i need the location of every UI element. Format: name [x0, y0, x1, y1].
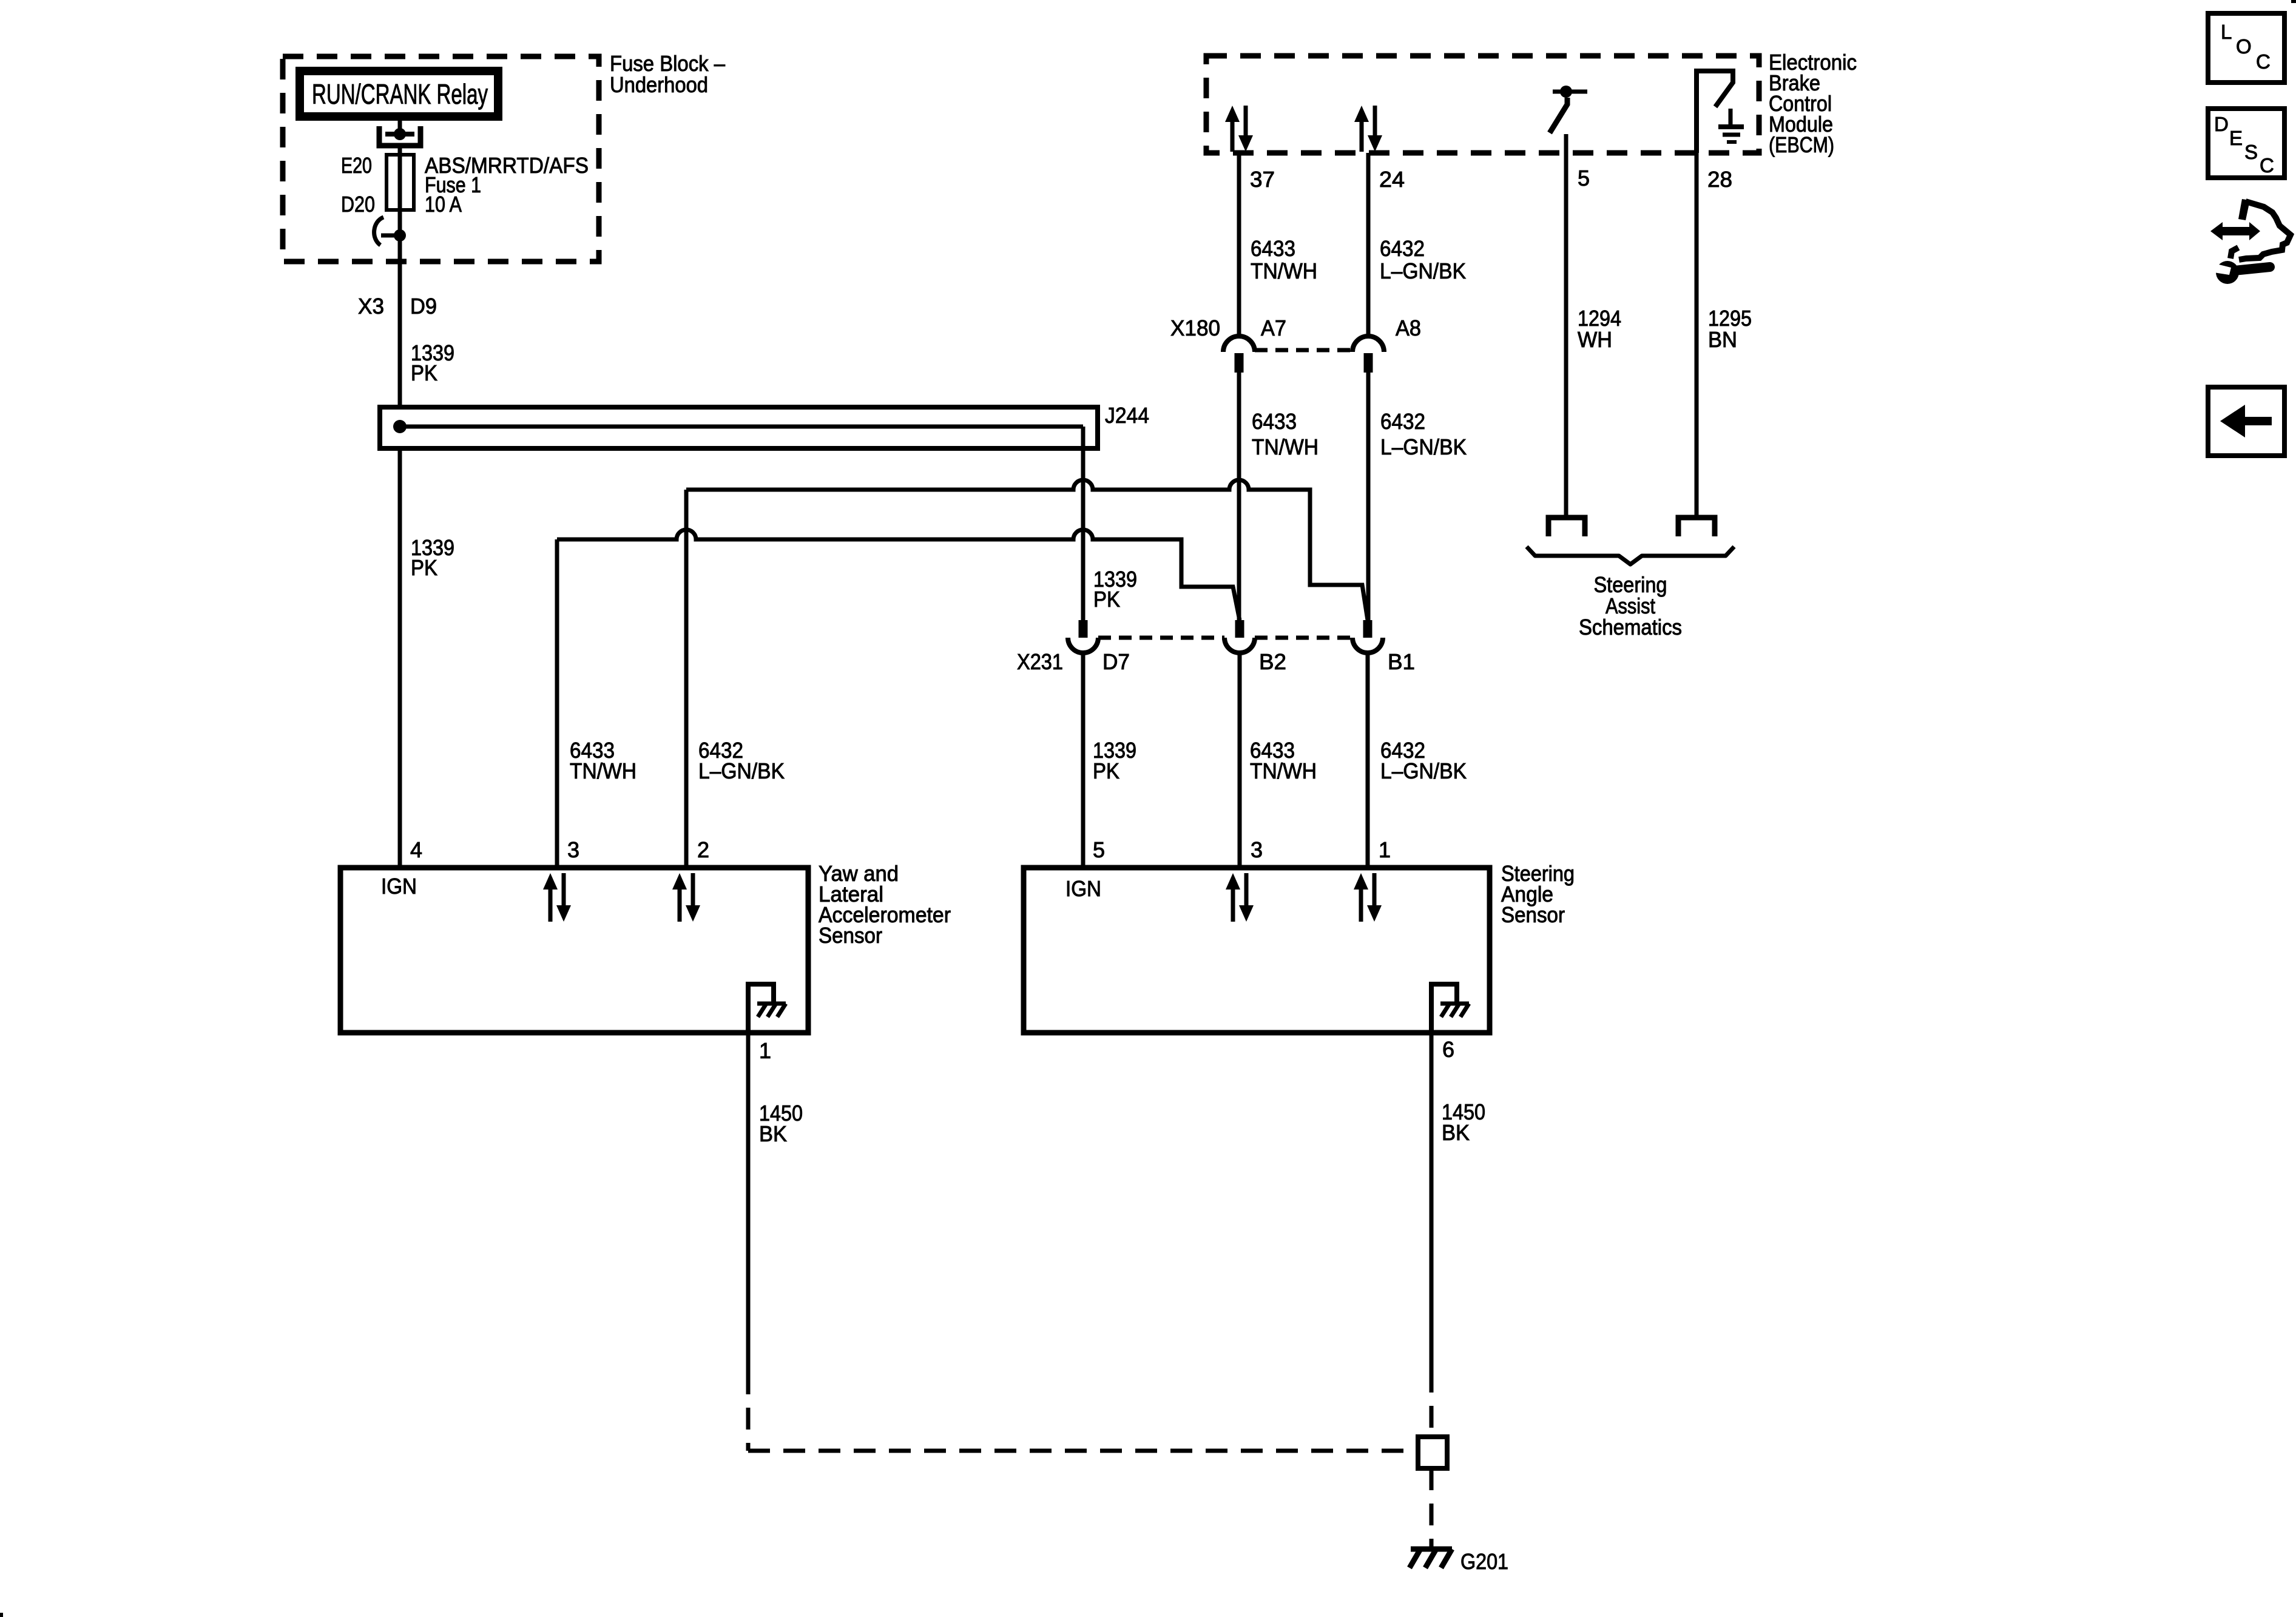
- svg-text:L–GN/BK: L–GN/BK: [698, 758, 785, 783]
- steering pin1 bidirectional arrows: [1354, 873, 1382, 922]
- wire 1339 PK D7 to steering pin 5: [1081, 653, 1086, 868]
- svg-text:PK: PK: [1093, 758, 1119, 783]
- wire EBCM pin37 to X180 A7: [1237, 153, 1241, 334]
- svg-text:1: 1: [759, 1038, 771, 1063]
- connector X231 terminal D7: [1068, 620, 1098, 653]
- dashed wire splice to G201: [1430, 1468, 1434, 1549]
- RUN/CRANK Relay box: [300, 71, 498, 116]
- svg-text:E: E: [2229, 127, 2243, 149]
- svg-text:3: 3: [567, 837, 579, 862]
- svg-text:PK: PK: [1093, 587, 1120, 612]
- corner tick top right: [2291, 0, 2296, 3]
- svg-text:IGN: IGN: [381, 874, 417, 899]
- wire 1294 WH EBCM pin5 to steering assist: [1564, 134, 1568, 515]
- wire relay to fuse clip: [398, 116, 402, 130]
- EBCM pin5 internal switch: [1550, 86, 1587, 133]
- svg-text:BK: BK: [759, 1121, 787, 1146]
- svg-text:(EBCM): (EBCM): [1769, 132, 1834, 157]
- svg-text:E20: E20: [341, 153, 372, 178]
- wire 1450 BK steering pin6 down: [1430, 1033, 1434, 1371]
- svg-text:37: 37: [1250, 167, 1275, 192]
- J244 internal bus wire: [400, 425, 1083, 429]
- fuse top bar: [385, 132, 414, 137]
- svg-text:G201: G201: [1460, 1549, 1508, 1574]
- wire 1295 BN EBCM pin28 to steering assist: [1695, 153, 1699, 515]
- wire from yaw pin2 to X231 B1 with hops: [686, 480, 1368, 620]
- yaw and lateral accelerometer sensor box: [340, 868, 808, 1033]
- steering assist brace: [1527, 547, 1734, 564]
- svg-text:PK: PK: [411, 360, 437, 385]
- wire 6433 TN/WH to yaw pin 3: [555, 539, 559, 868]
- steering sensor internal chassis ground: [1440, 1004, 1469, 1017]
- svg-text:L–GN/BK: L–GN/BK: [1380, 258, 1466, 283]
- connector X231 dashed line 2: [1255, 636, 1352, 640]
- wire 1450 BK yaw pin1 down: [746, 1033, 751, 1372]
- svg-text:6: 6: [1442, 1037, 1454, 1062]
- connector X231 dashed line: [1098, 636, 1224, 640]
- svg-text:S: S: [2244, 141, 2258, 163]
- wire from yaw pin3 to X231 B2 with hops: [557, 530, 1240, 620]
- svg-text:B2: B2: [1259, 649, 1286, 674]
- svg-text:IGN: IGN: [1065, 876, 1101, 901]
- J244 junction dot: [393, 420, 407, 433]
- back arrow icon box: [2208, 387, 2284, 456]
- svg-text:6432: 6432: [1380, 409, 1425, 434]
- diagnostic hand/wrench icon: [2210, 199, 2291, 284]
- steering angle sensor box: [1024, 868, 1490, 1033]
- connector X231 terminal B2: [1224, 620, 1255, 653]
- svg-text:D9: D9: [410, 294, 437, 319]
- yaw sensor internal ground wire: [748, 984, 774, 1033]
- svg-text:C: C: [2256, 50, 2271, 73]
- svg-text:24: 24: [1379, 167, 1405, 192]
- splice pack J244 box: [380, 407, 1098, 448]
- svg-text:TN/WH: TN/WH: [1250, 758, 1317, 783]
- svg-text:Schematics: Schematics: [1579, 615, 1682, 640]
- svg-text:X180: X180: [1170, 316, 1220, 340]
- splice block: [1418, 1437, 1447, 1468]
- ground G201 symbol: [1410, 1549, 1452, 1568]
- off-page bracket wire 1294: [1548, 518, 1585, 536]
- svg-text:Sensor: Sensor: [1501, 902, 1565, 927]
- svg-text:L–GN/BK: L–GN/BK: [1380, 434, 1467, 459]
- svg-text:10 A: 10 A: [425, 192, 462, 217]
- svg-text:5: 5: [1093, 837, 1105, 862]
- svg-text:J244: J244: [1105, 403, 1149, 428]
- svg-text:Underhood: Underhood: [610, 72, 708, 97]
- steering sensor internal ground wire: [1431, 984, 1457, 1033]
- fuse bottom tick: [381, 234, 400, 238]
- yaw sensor internal chassis ground: [757, 1004, 786, 1017]
- EBCM dashed box: [1206, 56, 1759, 153]
- yaw pin2 bidirectional arrows: [672, 873, 700, 922]
- EBCM pin28 internal switch to ground: [1697, 71, 1744, 153]
- connector X180 terminal A8: [1352, 336, 1384, 373]
- svg-text:A8: A8: [1396, 316, 1421, 340]
- svg-text:3: 3: [1251, 837, 1263, 862]
- svg-text:X3: X3: [358, 294, 384, 319]
- dashed wire 1450 BK right vertical: [1430, 1371, 1434, 1437]
- steering pin3 bidirectional arrows: [1226, 873, 1254, 922]
- wire 6432 L-GN/BK A8 to X231 B1: [1366, 373, 1371, 620]
- dashed wire 1450 BK horizontal to splice: [748, 1449, 1420, 1453]
- svg-text:28: 28: [1707, 167, 1732, 192]
- svg-text:C: C: [2260, 154, 2274, 177]
- wire 6433 TN/WH B2 to steering pin 3: [1238, 653, 1242, 868]
- wire 1339 PK J244 exit down to X231 D7: [1081, 427, 1086, 620]
- fuse clip hook: [374, 217, 383, 245]
- svg-text:X231: X231: [1017, 649, 1063, 674]
- yaw pin3 bidirectional arrows: [543, 873, 571, 922]
- EBCM pin24 bidirectional arrows: [1354, 106, 1382, 152]
- svg-text:6432: 6432: [1380, 236, 1425, 261]
- fuse holder top bracket: [379, 126, 420, 146]
- wire 6432 L-GN/BK B1 to steering pin 1: [1366, 653, 1370, 868]
- connector X231 terminal B1: [1352, 620, 1383, 653]
- fuse block - underhood dashed box: [283, 56, 599, 262]
- wire EBCM pin24 to X180 A8: [1366, 153, 1371, 334]
- wire 6432 L-GN/BK to yaw pin 2: [684, 490, 689, 868]
- svg-text:Sensor: Sensor: [819, 923, 882, 948]
- svg-text:4: 4: [410, 837, 422, 862]
- svg-text:6433: 6433: [1252, 409, 1297, 434]
- connector X180 terminal A7: [1223, 336, 1255, 373]
- wire 6433 TN/WH A7 to X231 B2: [1237, 373, 1241, 620]
- dashed wire 1450 BK left vertical: [746, 1372, 751, 1451]
- off-page bracket wire 1295: [1678, 518, 1715, 536]
- svg-text:6433: 6433: [1251, 236, 1295, 261]
- svg-text:L: L: [2221, 21, 2232, 43]
- svg-text:O: O: [2236, 35, 2252, 58]
- svg-text:BK: BK: [1442, 1120, 1470, 1145]
- fuse ABS/MRRTD/AFS Fuse 1 10A: [387, 155, 414, 210]
- svg-text:A7: A7: [1261, 316, 1286, 340]
- svg-text:WH: WH: [1578, 327, 1612, 352]
- wire 1339 PK J244 to yaw sensor pin 4: [398, 448, 402, 868]
- back arrow icon: [2220, 405, 2272, 437]
- svg-text:D7: D7: [1102, 649, 1130, 674]
- LOC icon box: [2208, 13, 2284, 83]
- EBCM pin37 bidirectional arrows: [1225, 106, 1253, 152]
- svg-text:1: 1: [1379, 837, 1391, 862]
- svg-text:B1: B1: [1388, 649, 1415, 674]
- svg-text:TN/WH: TN/WH: [1251, 258, 1317, 283]
- svg-text:PK: PK: [411, 555, 437, 580]
- wire through fuse: [398, 155, 402, 233]
- svg-text:D20: D20: [341, 192, 375, 217]
- connector X180 dashed line: [1255, 348, 1352, 353]
- svg-text:L–GN/BK: L–GN/BK: [1380, 758, 1467, 783]
- svg-text:TN/WH: TN/WH: [570, 758, 636, 783]
- junction below fuse: [394, 229, 406, 241]
- svg-text:5: 5: [1578, 166, 1590, 191]
- svg-text:BN: BN: [1708, 327, 1737, 352]
- svg-text:TN/WH: TN/WH: [1252, 434, 1319, 459]
- svg-text:2: 2: [697, 837, 709, 862]
- wire clip to fuse: [398, 146, 402, 157]
- corner tick bottom left: [0, 1613, 3, 1617]
- svg-text:RUN/CRANK Relay: RUN/CRANK Relay: [312, 78, 488, 110]
- DESC icon box: [2208, 109, 2284, 178]
- wire 1339 PK fuse to J244: [398, 233, 402, 410]
- svg-text:D: D: [2214, 113, 2229, 135]
- junction relay/fuse: [394, 128, 406, 140]
